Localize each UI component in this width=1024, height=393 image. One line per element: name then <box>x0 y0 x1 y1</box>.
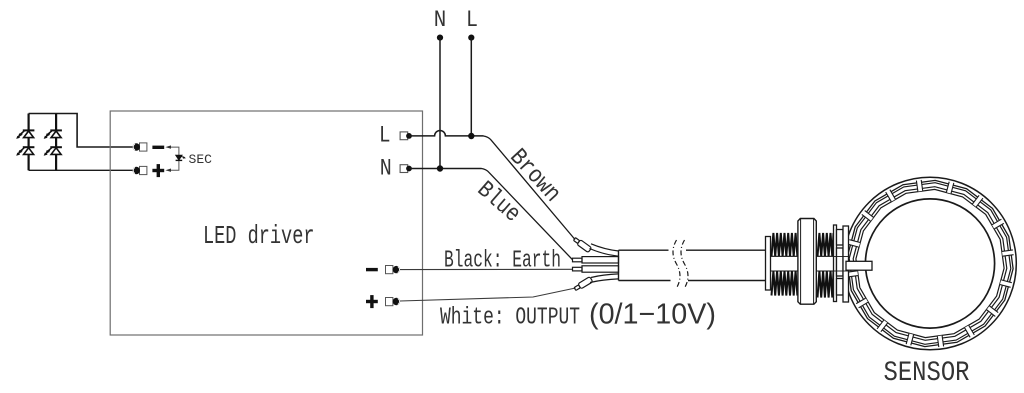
gland thread section 1 <box>772 233 798 296</box>
wire: brown (L) diagonal <box>484 136 576 240</box>
cable sheath <box>619 250 766 280</box>
svg-text:LED driver: LED driver <box>203 221 315 251</box>
symbol: minus polarity <box>152 146 164 149</box>
svg-text:L: L <box>466 7 478 33</box>
wire: L drop <box>470 38 472 136</box>
symbol: output minus polarity <box>366 268 378 271</box>
symbol: output plus polarity <box>366 295 378 308</box>
svg-text:Black: Earth: Black: Earth <box>444 247 561 274</box>
connector: blue ferrule <box>573 257 619 263</box>
connector: black ferrule <box>573 266 619 272</box>
node: L junction <box>468 133 474 139</box>
svg-text:L: L <box>379 123 391 149</box>
LED D1 <box>16 130 34 139</box>
gland thread section 2 <box>818 233 834 298</box>
gland flange <box>766 237 771 291</box>
terminal: output plus <box>386 298 401 306</box>
svg-text:SENSOR: SENSOR <box>884 358 970 389</box>
svg-text:White: OUTPUT: White: OUTPUT <box>440 305 580 332</box>
LED driver box <box>110 111 422 335</box>
sensor bezel panel outer edge B <box>849 183 1011 345</box>
node: N supply dot <box>437 35 443 41</box>
LED D2 <box>16 147 34 156</box>
wire: N link <box>409 168 482 170</box>
sensor bezel panel outer edge A <box>847 180 1013 346</box>
sensor outer circle <box>844 177 1017 350</box>
sensor bezel panel inner edge A <box>853 187 1007 341</box>
terminal: secondary minus <box>133 143 147 151</box>
diode: SEC optocoupler LED <box>176 155 186 160</box>
wire: white output <box>400 288 576 301</box>
wire: L link with hop over N <box>409 131 484 136</box>
sensor bezel panel inner edge B <box>856 189 1004 337</box>
sensor segment boundaries <box>846 180 1013 347</box>
terminal: L <box>400 132 408 140</box>
sensor lens circle <box>865 199 994 328</box>
terminal: secondary plus <box>133 166 147 174</box>
wire: SEC feedback link <box>170 147 179 170</box>
svg-text:SEC: SEC <box>189 152 213 167</box>
terminal: N <box>400 165 408 173</box>
symbol: cable break <box>673 240 688 288</box>
LED D3 <box>44 130 62 139</box>
wire: blue (N) diagonal <box>482 169 573 260</box>
symbol: plus polarity <box>152 164 164 177</box>
svg-text:N: N <box>380 155 392 181</box>
node: L supply dot <box>468 35 474 41</box>
svg-text:(0/1−10V): (0/1−10V) <box>589 299 716 331</box>
LED D4 <box>44 147 62 156</box>
wire: LED string 1 <box>28 114 30 171</box>
wire: LED array bottom rail <box>29 169 133 171</box>
wire: N drop <box>439 38 441 169</box>
connector: brown crimp <box>573 237 619 257</box>
wire: black earth <box>400 268 573 270</box>
connector: white crimp <box>573 274 618 292</box>
wire: LED string 2 <box>55 114 57 171</box>
gland hex nut <box>798 219 816 305</box>
wire: LED array top rail <box>29 114 133 148</box>
node: N junction <box>437 165 443 171</box>
svg-text:N: N <box>434 7 447 33</box>
terminal: output minus <box>386 266 401 274</box>
gland washer stack <box>834 225 873 302</box>
